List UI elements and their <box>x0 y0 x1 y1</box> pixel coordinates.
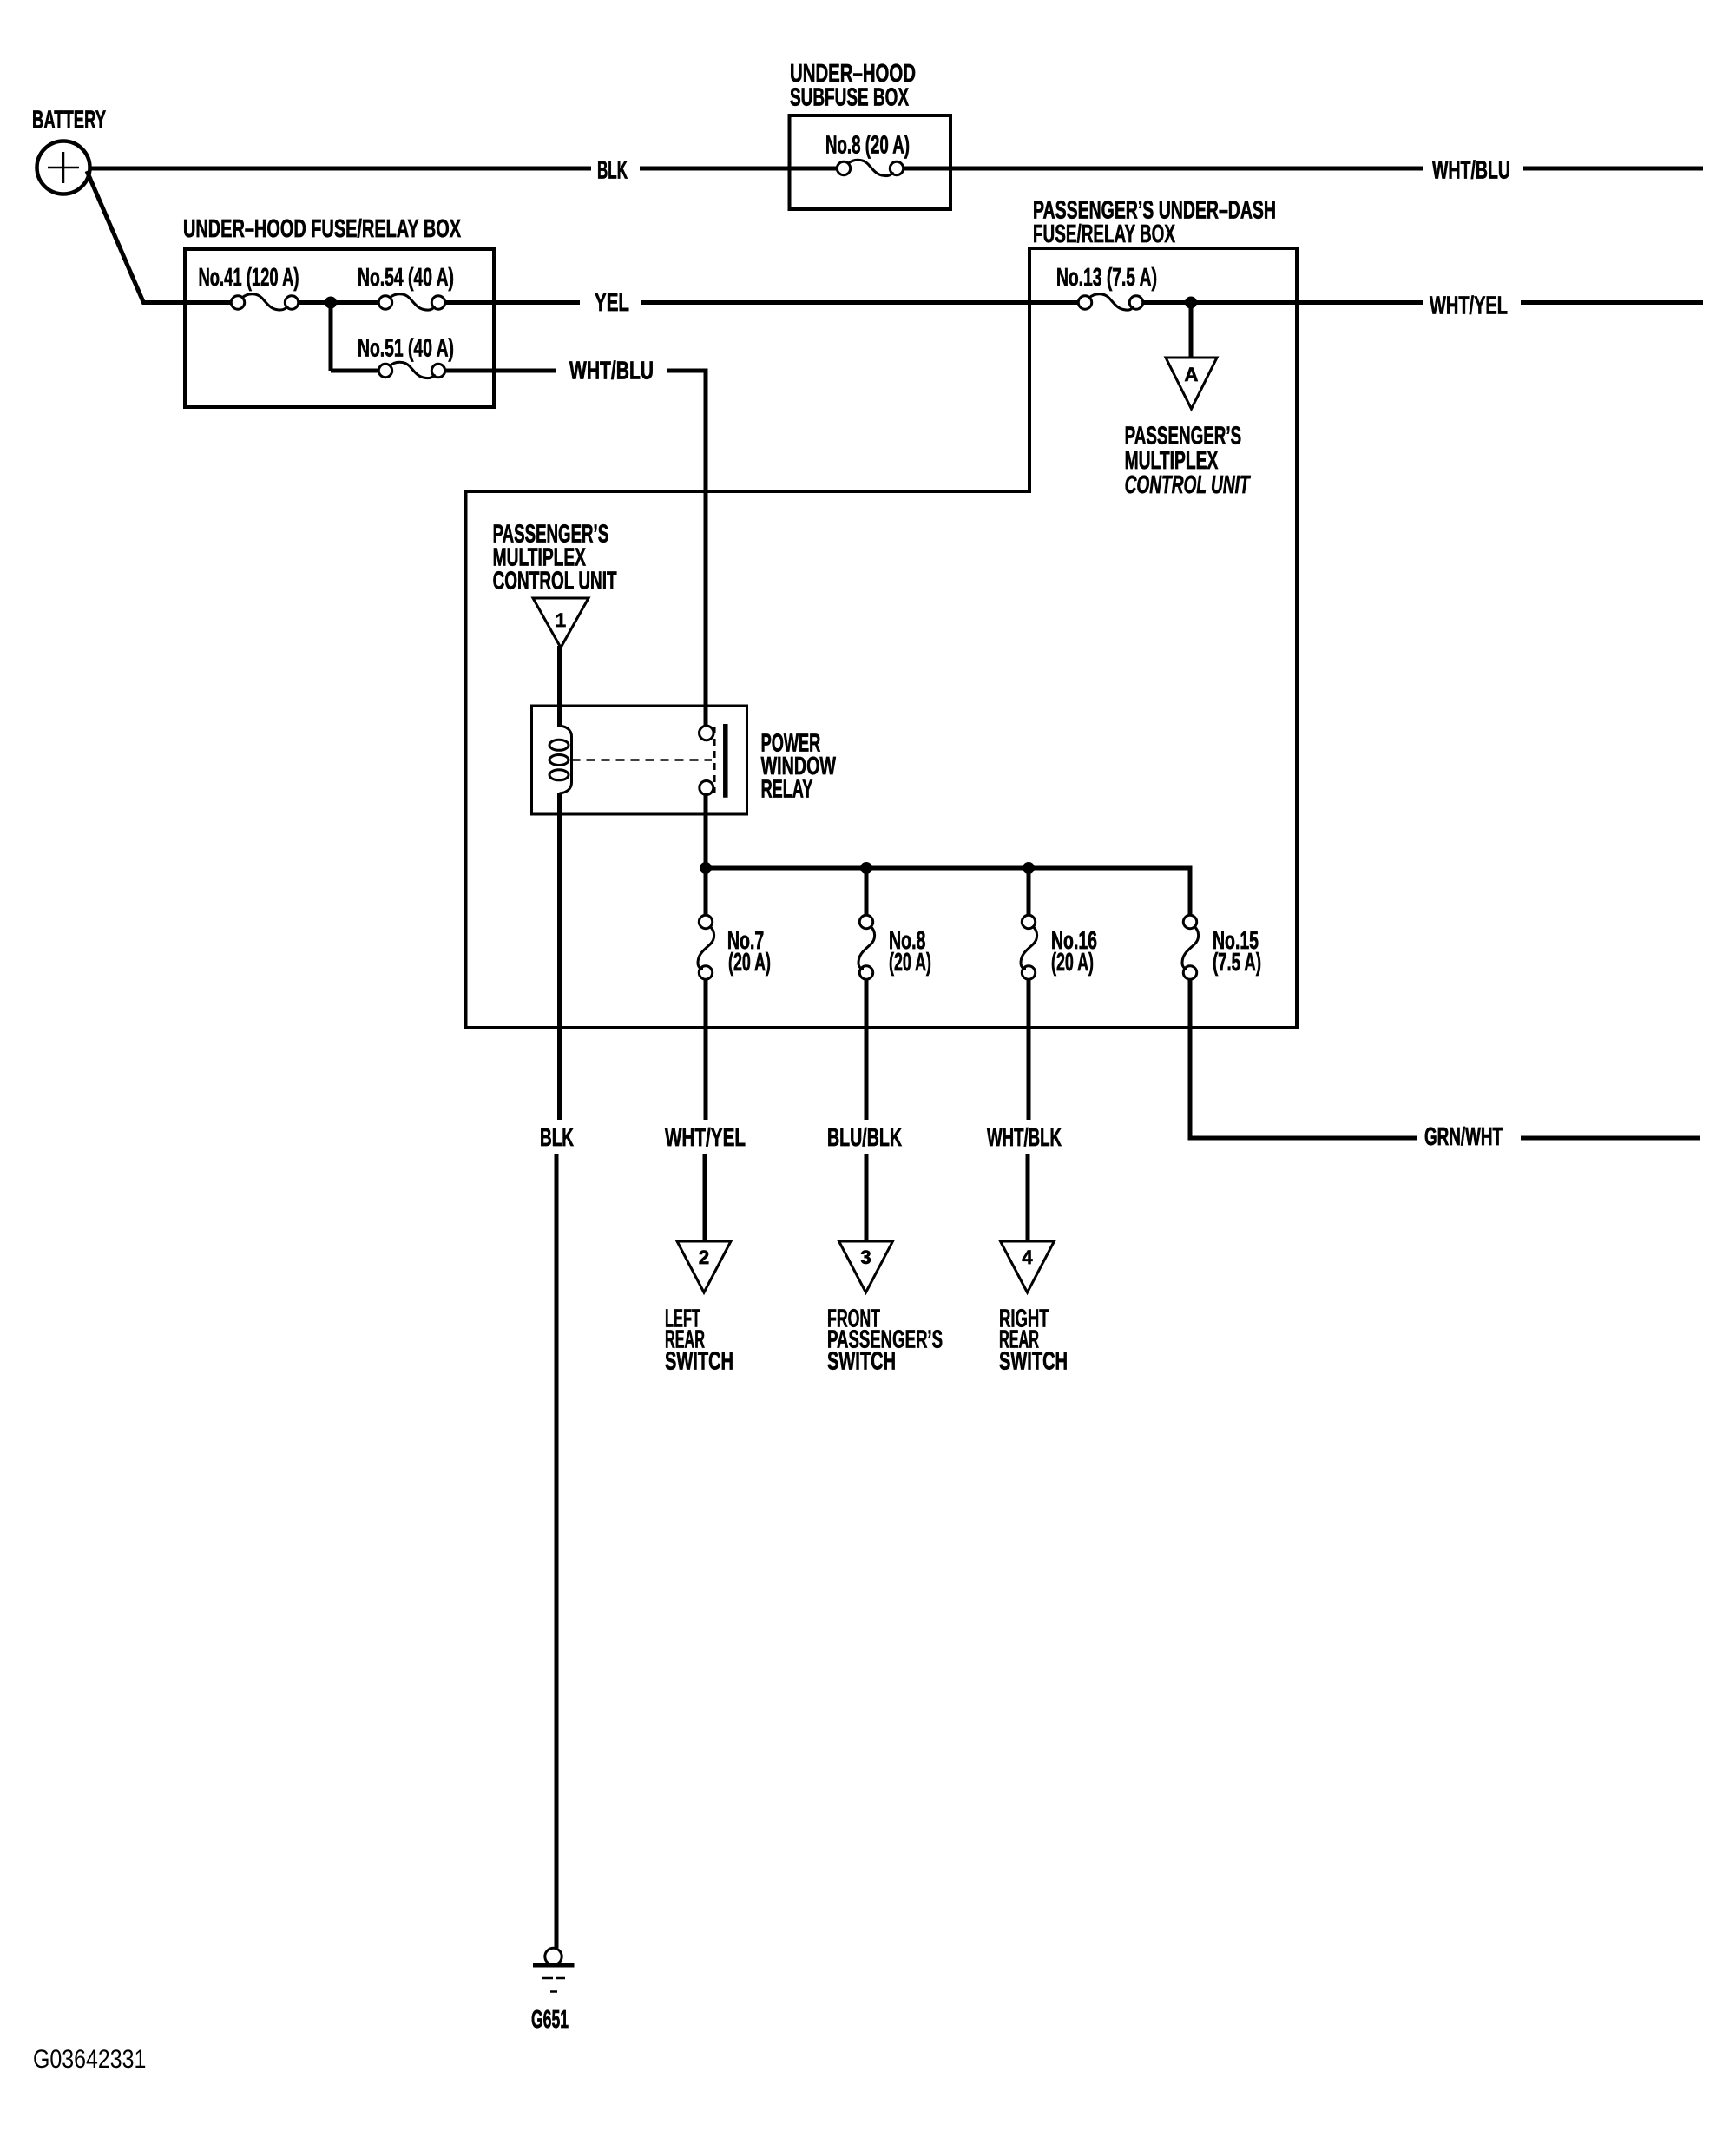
wire WHT/YEL to right edge <box>1521 300 1703 305</box>
node bus junction at No.8 <box>860 862 872 874</box>
battery symbol <box>37 141 90 194</box>
wire label YEL <box>595 289 629 317</box>
svg-text:YEL: YEL <box>595 289 629 317</box>
svg-text:PASSENGER’S: PASSENGER’S <box>1125 423 1242 451</box>
power window relay box <box>532 706 747 814</box>
fuse No.8 20A <box>858 915 875 979</box>
wire fuse No.8 to BLU/BLK label <box>865 979 869 1120</box>
wire connector 1 to relay coil <box>557 646 562 727</box>
wire label BLK (ground branch) <box>540 1124 574 1152</box>
wire label WHT/YEL (right) <box>1430 293 1508 320</box>
svg-text:BLU/BLK: BLU/BLK <box>827 1124 902 1152</box>
svg-text:A: A <box>1185 364 1199 385</box>
wire junction down to fuse No.51 <box>329 300 333 371</box>
relay contact bar <box>723 724 728 798</box>
svg-text:1: 1 <box>556 609 566 631</box>
relay dashed actuator line <box>572 727 715 793</box>
wire No.41 to No.54 <box>299 300 380 305</box>
wire coil down through box <box>557 793 562 1120</box>
wire label WHT/BLU (middle) <box>569 358 654 385</box>
wire fuse No.7 to WHT/YEL label <box>704 979 708 1120</box>
wire fuse No.15 down <box>1188 979 1193 1141</box>
connector 3 triangle <box>839 1241 893 1292</box>
under-hood fuse/relay box <box>185 249 494 407</box>
wire fuse box to YEL label <box>445 300 581 305</box>
svg-text:G651: G651 <box>531 2006 569 2034</box>
svg-text:WHT/BLU: WHT/BLU <box>1432 157 1510 185</box>
svg-text:SWITCH: SWITCH <box>665 1348 733 1376</box>
under-hood subfuse box label <box>790 60 916 112</box>
battery BATTERY label <box>32 107 106 135</box>
fuse No.54 40A <box>378 294 444 310</box>
svg-text:2: 2 <box>699 1246 709 1268</box>
svg-text:No.8 (20 A): No.8 (20 A) <box>825 132 910 160</box>
wire YEL to under-dash box <box>641 300 1079 305</box>
svg-text:CONTROL UNIT: CONTROL UNIT <box>493 568 617 595</box>
relay contact upper terminal <box>700 726 714 740</box>
wire BLK label to subfuse box <box>640 167 837 171</box>
wire battery diagonal <box>87 171 144 304</box>
fuse No.8 20A label (subfuse box) <box>825 132 910 160</box>
fuse No.7 20A <box>698 915 714 979</box>
right rear switch label <box>999 1306 1068 1376</box>
svg-text:FUSE/RELAY BOX: FUSE/RELAY BOX <box>1033 220 1175 248</box>
svg-text:WHT/BLK: WHT/BLK <box>987 1124 1062 1152</box>
fuse No.51 40A label <box>358 335 454 363</box>
connector 4 triangle <box>1001 1241 1055 1292</box>
svg-text:4: 4 <box>1022 1246 1033 1268</box>
wire bus to fuse No.8 <box>865 868 869 916</box>
wire fuse No.16 to WHT/BLK label <box>1027 979 1031 1120</box>
node bus junction at No.7 <box>700 862 712 874</box>
svg-text:No.13 (7.5 A): No.13 (7.5 A) <box>1056 264 1157 292</box>
fuse No.15 7.5A label <box>1213 927 1261 977</box>
relay contact lower terminal <box>700 781 713 795</box>
wire battery to BLK label <box>89 167 591 171</box>
svg-text:GRN/WHT: GRN/WHT <box>1424 1123 1503 1151</box>
fuse No.41 120A <box>231 294 298 310</box>
ground G651 label <box>531 2006 569 2034</box>
fuse No.51 40A <box>378 362 444 378</box>
fuse No.54 40A label <box>358 264 454 292</box>
fuse No.13 7.5A <box>1078 294 1142 310</box>
connector 1 label <box>556 609 566 631</box>
svg-text:WHT/YEL: WHT/YEL <box>1430 293 1508 320</box>
svg-text:WHT/BLU: WHT/BLU <box>569 358 654 385</box>
wire WHT/BLK label to connector 4 <box>1026 1154 1030 1243</box>
svg-text:No.51 (40 A): No.51 (40 A) <box>358 335 454 363</box>
wire label WHT/BLK (branch) <box>987 1124 1062 1152</box>
wire fuse bus <box>706 866 1193 871</box>
wire BLK label to ground <box>555 1154 559 1948</box>
wire label BLU/BLK (branch) <box>827 1124 902 1152</box>
figure number G03642331 <box>33 2045 146 2074</box>
wire WHT/BLU label to corner <box>667 369 708 373</box>
wire GRN/WHT to right edge <box>1521 1136 1700 1141</box>
svg-text:3: 3 <box>860 1246 871 1268</box>
fuse No.16 20A <box>1021 915 1037 979</box>
svg-text:SWITCH: SWITCH <box>999 1348 1068 1376</box>
relay coil <box>549 726 572 793</box>
connector 3 label <box>860 1246 871 1268</box>
wire to fuse No.51 <box>331 369 379 373</box>
svg-text:RELAY: RELAY <box>761 776 813 804</box>
wire bus corner down to No.15 <box>1188 866 1193 916</box>
node junction No.41/No.54/No.51 <box>325 297 337 309</box>
connector A label <box>1185 364 1199 385</box>
svg-text:BLK: BLK <box>540 1124 574 1152</box>
node bus junction at No.16 <box>1023 862 1035 874</box>
under-hood fuse/relay box label <box>183 215 461 243</box>
wire fuse No.13 to WHT/YEL label <box>1143 300 1424 305</box>
fuse No.15 7.5A <box>1182 915 1199 979</box>
wire WHT/BLU down to relay contact <box>704 369 708 727</box>
wire WHT/BLU to right edge <box>1523 167 1703 171</box>
svg-text:(20 A): (20 A) <box>1051 949 1094 977</box>
front passengers switch label <box>827 1306 943 1376</box>
passengers multiplex control unit label (right) <box>1125 423 1252 500</box>
wire WHT/YEL label to connector 2 <box>703 1154 707 1243</box>
svg-text:WHT/YEL: WHT/YEL <box>665 1124 746 1152</box>
wire to under-hood fuse/relay box <box>142 300 232 305</box>
svg-text:UNDER–HOOD FUSE/RELAY BOX: UNDER–HOOD FUSE/RELAY BOX <box>183 215 461 243</box>
ground symbol G651 <box>533 1948 575 1991</box>
svg-text:BATTERY: BATTERY <box>32 107 106 135</box>
node junction above connector A <box>1185 297 1197 309</box>
svg-text:No.54 (40 A): No.54 (40 A) <box>358 264 454 292</box>
connector 4 label <box>1022 1246 1033 1268</box>
svg-text:(20 A): (20 A) <box>889 949 931 977</box>
connector 2 triangle <box>677 1241 731 1292</box>
fuse No.8 20A label <box>889 927 931 977</box>
svg-text:G03642331: G03642331 <box>33 2045 146 2074</box>
passengers under-dash fuse/relay box + control unit boundary box <box>466 248 1298 1028</box>
wire subfuse box to WHT/BLU label <box>904 167 1423 171</box>
power window relay label <box>761 730 837 804</box>
wire label WHT/BLU (top right) <box>1432 157 1510 185</box>
svg-text:SWITCH: SWITCH <box>827 1348 896 1376</box>
fuse No.8 20A (subfuse box) <box>837 160 903 175</box>
under-hood subfuse box <box>790 115 951 209</box>
svg-text:(7.5 A): (7.5 A) <box>1213 949 1261 977</box>
wire No.15 corner to GRN/WHT label <box>1188 1136 1417 1141</box>
wire BLU/BLK label to connector 3 <box>865 1154 869 1243</box>
connector A triangle <box>1166 358 1217 409</box>
passengers multiplex control unit label (left) <box>493 521 617 595</box>
passengers under-dash fuse/relay box label <box>1033 197 1276 249</box>
connector 2 label <box>699 1246 709 1268</box>
left rear switch label <box>665 1306 733 1376</box>
wire bus to fuse No.7 <box>704 868 708 916</box>
svg-text:SUBFUSE BOX: SUBFUSE BOX <box>790 84 909 112</box>
svg-text:CONTROL UNIT: CONTROL UNIT <box>1125 471 1252 499</box>
wire relay lower contact to bus <box>704 795 708 869</box>
svg-text:(20 A): (20 A) <box>728 949 771 977</box>
fuse No.13 7.5A label <box>1056 264 1157 292</box>
wire bus to fuse No.16 <box>1027 868 1031 916</box>
wire label BLK <box>597 157 628 185</box>
fuse No.41 120A label <box>199 264 299 292</box>
wire junction to connector A <box>1189 303 1193 358</box>
connector 1 triangle <box>533 598 589 648</box>
fuse No.7 20A label <box>727 927 771 977</box>
fuse No.16 20A label <box>1051 927 1097 977</box>
wire label WHT/YEL (branch) <box>665 1124 746 1152</box>
svg-text:BLK: BLK <box>597 157 628 185</box>
wire fuse No.51 to WHT/BLU label <box>445 369 556 373</box>
wire label GRN/WHT <box>1424 1123 1503 1151</box>
svg-text:No.41 (120 A): No.41 (120 A) <box>199 264 299 292</box>
